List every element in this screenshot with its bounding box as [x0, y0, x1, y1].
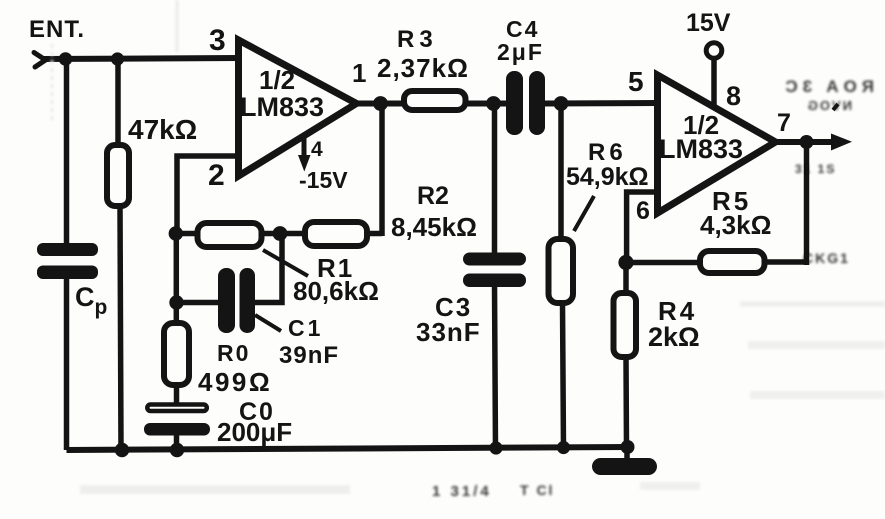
svg-text:80,6kΩ: 80,6kΩ: [293, 276, 379, 306]
wire Cp to ground rail: [64, 277, 70, 450]
pin 4 arrow to -15V: [298, 137, 311, 172]
capacitor C1: [218, 268, 255, 333]
svg-text:R6: R6: [588, 139, 627, 166]
ground: [592, 458, 657, 475]
wire R4 to ground rail: [623, 357, 629, 449]
svg-text:2μF: 2μF: [497, 39, 544, 65]
svg-text:C1: C1: [288, 315, 323, 341]
wire 47k to ground rail: [120, 206, 121, 450]
capacitor C3: [463, 253, 526, 288]
op-amp U1 LM833 triangle: [239, 40, 357, 176]
svg-text:-15V: -15V: [299, 167, 348, 193]
wire C4 to op-amp2 pin 5: [543, 100, 658, 107]
wire C0 to ground rail: [174, 434, 180, 450]
svg-text:R2: R2: [417, 182, 449, 210]
svg-text:200μF: 200μF: [217, 417, 292, 447]
wire riser R2 to op-amp output: [379, 104, 385, 237]
scan speck mark: [833, 104, 838, 110]
svg-text:31 1S: 31 1S: [795, 162, 836, 176]
resistor R5: [700, 251, 765, 273]
wire op-amp2 output: [772, 139, 834, 145]
wire R0 to C0: [174, 385, 180, 404]
svg-text:2kΩ: 2kΩ: [648, 322, 700, 352]
wire node to C1 junction: [174, 233, 180, 322]
output arrowhead: [831, 134, 852, 151]
svg-text:2,37kΩ: 2,37kΩ: [377, 53, 469, 83]
wire R1 to R2: [262, 231, 304, 237]
wire node to R4: [623, 262, 629, 294]
node C4-R6 junction: [554, 96, 569, 111]
wire C3 branch down: [492, 104, 498, 256]
capacitor C0 electrolytic: [144, 405, 210, 436]
svg-text:4: 4: [311, 138, 323, 161]
capacitor Cp: [37, 243, 98, 279]
svg-text:1: 1: [352, 58, 366, 88]
node rail 47k junction: [115, 443, 129, 457]
pointer line C1 label: [255, 315, 281, 331]
svg-text:6: 6: [636, 197, 650, 225]
svg-text:ROA 3C: ROA 3C: [780, 77, 874, 96]
svg-text:39nF: 39nF: [279, 342, 339, 369]
wire pin 6 up and over: [627, 192, 658, 263]
resistor R6: [549, 239, 574, 303]
pointer line R6 label: [574, 196, 594, 231]
node op-amp1 output junction: [373, 96, 388, 111]
wire pin 2 feedback: [177, 156, 238, 233]
wire 47k branch down: [115, 59, 121, 146]
svg-text:1/2: 1/2: [259, 65, 295, 95]
wire C3 to ground rail: [495, 285, 496, 450]
node input junction B: [111, 52, 124, 65]
svg-text:15V: 15V: [686, 9, 731, 37]
svg-text:R0: R0: [217, 340, 250, 366]
node rail R4 ground junction: [621, 440, 635, 454]
node R3-C4 junction: [486, 96, 501, 111]
node rail R6 junction: [557, 441, 570, 454]
node C1 branch junction: [169, 295, 183, 309]
wire ground rail: [67, 447, 632, 450]
resistor R2: [305, 222, 367, 246]
svg-text:499Ω: 499Ω: [198, 367, 272, 397]
svg-text:Cp: Cp: [75, 282, 107, 319]
svg-text:8,45kΩ: 8,45kΩ: [391, 212, 477, 242]
svg-text:CKG1: CKG1: [803, 250, 850, 266]
wire C1 right lead up to R1-R2 node: [253, 234, 282, 303]
op-amp U2 LM833 triangle: [658, 75, 776, 213]
input connector ENT. chevron: [34, 53, 46, 68]
wire R3 to C4: [465, 101, 508, 107]
svg-text:R3: R3: [397, 26, 438, 53]
capacitor C4: [506, 71, 545, 135]
wire feedback from output down: [804, 142, 810, 265]
node inverting input junction: [169, 226, 183, 240]
wire op-amp1 output to R3: [354, 101, 404, 107]
wire C1 left lead: [175, 300, 220, 306]
node rail C3 junction: [489, 441, 502, 454]
svg-text:33nF: 33nF: [416, 317, 481, 347]
node R1-R2 junction: [273, 226, 288, 241]
resistor R0: [164, 323, 189, 385]
resistor R4: [614, 293, 637, 357]
wire 15V to pin 8: [711, 60, 717, 106]
svg-text:LM833: LM833: [659, 134, 743, 164]
wire R6 to ground rail: [563, 303, 564, 450]
wire R1 left lead: [175, 231, 198, 237]
wire Cp branch down: [64, 59, 70, 245]
svg-text:4,3kΩ: 4,3kΩ: [700, 210, 771, 240]
node input junction A: [59, 52, 73, 66]
svg-text:2: 2: [208, 159, 225, 192]
wire ground stub: [624, 447, 630, 462]
pointer line R1 label: [263, 250, 308, 276]
svg-text:NVOG: NVOG: [806, 98, 852, 113]
svg-text:ENT.: ENT.: [29, 16, 85, 43]
node output junction: [800, 135, 814, 149]
svg-text:7: 7: [777, 109, 791, 137]
wire input horizontal to pin 3: [42, 58, 239, 59]
svg-text:5: 5: [628, 66, 644, 97]
svg-text:LM833: LM833: [240, 92, 324, 122]
resistor 47k: [107, 145, 129, 206]
wire R2 right lead to riser: [368, 231, 382, 237]
wire R5 left lead to node: [624, 260, 700, 266]
svg-text:54,9kΩ: 54,9kΩ: [566, 163, 649, 191]
node feedback junction: [618, 255, 633, 270]
supply 15V terminal circle: [706, 43, 722, 59]
svg-text:1 31/4: 1 31/4: [432, 483, 492, 500]
node rail C0 junction: [170, 443, 184, 457]
svg-text:8: 8: [726, 81, 741, 111]
wire R6 branch down: [558, 104, 564, 241]
resistor R3: [404, 91, 466, 110]
svg-text:3: 3: [209, 24, 226, 57]
svg-text:T Cl: T Cl: [520, 482, 554, 498]
wire R5 right lead: [764, 259, 807, 265]
svg-text:47kΩ: 47kΩ: [128, 114, 197, 145]
resistor R1: [198, 223, 262, 247]
